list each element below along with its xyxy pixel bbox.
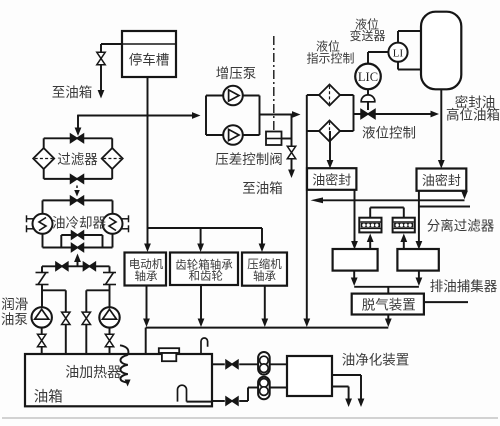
- svg-text:LIC: LIC: [358, 70, 378, 84]
- svg-text:润滑: 润滑: [1, 297, 28, 312]
- svg-text:停车槽: 停车槽: [129, 52, 170, 68]
- svg-text:压缩机: 压缩机: [247, 257, 282, 271]
- svg-text:油箱: 油箱: [34, 389, 63, 406]
- svg-text:增压泵: 增压泵: [216, 66, 257, 81]
- svg-text:齿轮箱轴承: 齿轮箱轴承: [175, 258, 233, 272]
- svg-text:轴承: 轴承: [253, 269, 276, 283]
- svg-text:脱气装置: 脱气装置: [362, 297, 416, 312]
- svg-text:至油箱: 至油箱: [242, 181, 283, 196]
- svg-text:变送器: 变送器: [349, 28, 385, 43]
- svg-text:油密封: 油密封: [312, 172, 351, 187]
- svg-text:油冷却器: 油冷却器: [52, 215, 106, 230]
- svg-text:和齿轮: 和齿轮: [189, 269, 224, 283]
- svg-text:油净化装置: 油净化装置: [342, 353, 410, 368]
- svg-text:高位油箱: 高位油箱: [446, 107, 500, 123]
- svg-text:轴承: 轴承: [135, 269, 158, 283]
- svg-text:分离过滤器: 分离过滤器: [427, 218, 495, 234]
- svg-text:至油箱: 至油箱: [52, 85, 93, 100]
- svg-text:排油捕集器: 排油捕集器: [430, 279, 498, 294]
- svg-text:油加热器: 油加热器: [65, 364, 121, 380]
- svg-text:过滤器: 过滤器: [57, 152, 98, 167]
- svg-text:油泵: 油泵: [1, 312, 28, 327]
- svg-text:LI: LI: [393, 47, 404, 59]
- svg-text:油密封: 油密封: [422, 173, 461, 188]
- svg-text:指示控制: 指示控制: [306, 51, 354, 66]
- svg-text:压差控制阀: 压差控制阀: [215, 152, 283, 167]
- svg-text:电动机: 电动机: [129, 257, 164, 271]
- svg-text:液位控制: 液位控制: [362, 126, 416, 141]
